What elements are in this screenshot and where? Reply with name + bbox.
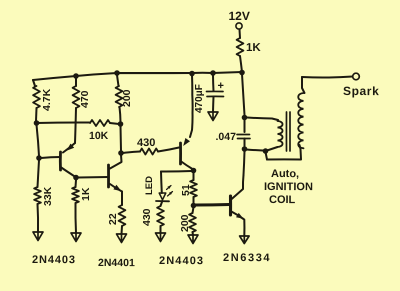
wire base node to 33K [38,160,40,187]
node Q1 base junction [36,155,42,161]
wire Q2 emitter to 22 [121,192,123,206]
wire 200 to 10K junction [120,107,121,122]
node spark terminal [353,73,360,80]
svg-text:2N4403: 2N4403 [159,255,204,267]
svg-text:4.7K: 4.7K [41,88,53,111]
resistor 51 [190,180,197,197]
resistor 1K (supply) [237,38,244,56]
svg-text:33K: 33K [42,186,54,206]
wire node B to common node [247,150,264,151]
capacitor 470uF plate2 [207,95,224,97]
resistor 4.7K [33,86,40,108]
wire Q1 emitter lead [63,143,75,153]
svg-text:200: 200 [121,89,133,107]
svg-text:430: 430 [137,137,155,149]
transistor Q3 base bar [179,143,182,164]
wire node A to primary top [247,118,278,121]
wire secondary top up [302,77,305,93]
resistor 33K [34,187,41,204]
svg-text:LED: LED [144,176,155,195]
node A primary-top junction [242,115,248,121]
resistor 200 (divider) [189,213,196,232]
node 10K-left junction [34,120,40,126]
wire 1K to ground [74,203,77,233]
wire Q2 emitter lead [110,184,122,192]
wire spark lead [302,77,353,78]
svg-text:Auto,: Auto, [271,168,299,180]
ground under 33K [33,232,43,241]
wire Q2 base lead [78,176,109,179]
wire junction to 1K [75,180,78,187]
wire LED corner down [160,172,163,194]
wire R 1K to rail [240,56,242,72]
wire common node to bottom rail [266,152,268,160]
node B primary-bottom junction [242,146,248,152]
svg-text:200: 200 [179,214,191,232]
svg-text:2N4401: 2N4401 [98,257,135,269]
ground under 430 [156,233,166,242]
svg-text:2N6334: 2N6334 [223,252,271,264]
wire rail end down to node A [242,74,245,115]
svg-text:Spark: Spark [343,84,379,98]
wire primary bottom to node B [267,147,278,151]
node rail-470 junction [73,73,79,79]
diode LED triangle [159,193,166,200]
wire rail left corner [33,80,35,86]
ground under 470uF [208,112,218,121]
ground under 200 [188,235,198,244]
node rail-Q3 junction [189,71,195,77]
wire 22 to ground [121,226,124,234]
resistor 10K [90,120,110,126]
wire .047 to node B [244,139,246,147]
wire Q2 collector lead [110,155,122,169]
node divider junction [191,203,197,209]
svg-text:470μF: 470μF [194,84,205,113]
wire 200 to ground [192,232,195,235]
ground under Q4 [240,236,250,244]
wire 430 to ground [160,226,162,233]
svg-text:12V: 12V [228,9,249,23]
inductor secondary winding [298,93,303,148]
resistor 470 [73,86,80,108]
svg-text:10K: 10K [89,130,109,142]
transformer core line 1 [285,112,287,151]
wire rail to 470uF [212,75,215,91]
node 10K-200 junction [118,121,124,127]
svg-text:51: 51 [180,184,192,196]
wire node A to .047 [244,120,246,132]
ground under 22 [117,234,127,243]
arrowhead Q4 emitter [236,213,244,219]
wire Q4 collector lead [231,175,244,200]
wire 51 to divider node [193,197,195,204]
svg-text:1K: 1K [246,42,261,54]
node primary-bottom-common junction [263,148,269,154]
capacitor .047 plate1 [237,134,250,136]
LED emission arrow 2 [168,192,173,197]
wire 470uF to ground [212,97,215,113]
wire 33K to ground [37,204,40,232]
wire rail to 470 [75,78,77,86]
capacitor .047 plate2 [238,138,251,140]
resistor 430 (base) [140,149,158,155]
wire Q3 node to 51 [193,173,195,180]
svg-text:22: 22 [107,213,119,225]
node rail-470uF junction [210,70,216,76]
wire LED to 430 [161,201,163,206]
svg-text:+: + [217,80,223,92]
wire divider to 200 [193,207,194,213]
resistor 430 (LED) [157,206,164,226]
wire 10K junction to Q2 collector node [120,126,123,151]
svg-text:2N4403: 2N4403 [32,254,76,266]
wire 430 right lead [158,148,179,152]
LED emission arrow 1 [167,186,172,190]
wire rail to Q3 emitter [190,75,193,137]
resistor 200 [116,86,123,107]
node 12V terminal [236,23,242,29]
transistor Q1 base bar [59,152,62,170]
transformer core line 2 [289,112,291,151]
wire 430 left lead [123,152,140,154]
arrowhead Q2 emitter [113,185,121,192]
wire Q4 base lead [196,203,230,207]
resistor 1K (Q2 base bias) [72,187,79,203]
node Q3 collector junction [191,168,197,174]
arrowhead Q3 emitter [183,138,190,146]
resistor 22 [119,205,126,226]
svg-text:430: 430 [141,208,153,226]
wire 470 to Q1 emitter [75,108,76,143]
capacitor 470uF plate1 [207,90,224,92]
ground under 1K [71,233,81,242]
wire node B down to Q4 collector [244,151,245,175]
node Q1-Q2 junction [73,175,79,181]
arrowhead Q1 emitter [67,144,75,151]
diode LED cathode bar [156,200,169,202]
svg-text:1K: 1K [80,187,92,201]
svg-text:COIL: COIL [269,194,296,206]
wire 12V to R 1K [239,30,242,39]
wire 10K left lead [37,121,91,124]
wire rail to 200 [117,75,119,86]
svg-text:.047: .047 [215,131,236,143]
wire Q4 emitter to ground [243,220,245,237]
wire node to base node [37,125,40,156]
node rail-200 junction [114,70,120,76]
wire Q1 collector lead [61,167,75,176]
wire Q1 base lead [41,157,61,158]
wire 4.7K to node [35,108,38,121]
wire 10K right lead [110,123,119,124]
transistor Q4 base bar [229,196,232,215]
transistor Q2 base bar [107,165,110,187]
svg-text:470: 470 [79,90,91,108]
svg-text:IGNITION: IGNITION [264,181,313,193]
wire transformer bottom link [267,145,301,160]
inductor primary winding [278,121,283,147]
wire collector node to LED corner [161,170,192,173]
node Q2 collector junction [118,150,124,156]
node rail-coil junction [239,70,245,76]
wire Q3 collector lead [181,161,193,169]
wire top supply rail [33,72,242,80]
wire Q4 emitter lead [231,211,244,219]
